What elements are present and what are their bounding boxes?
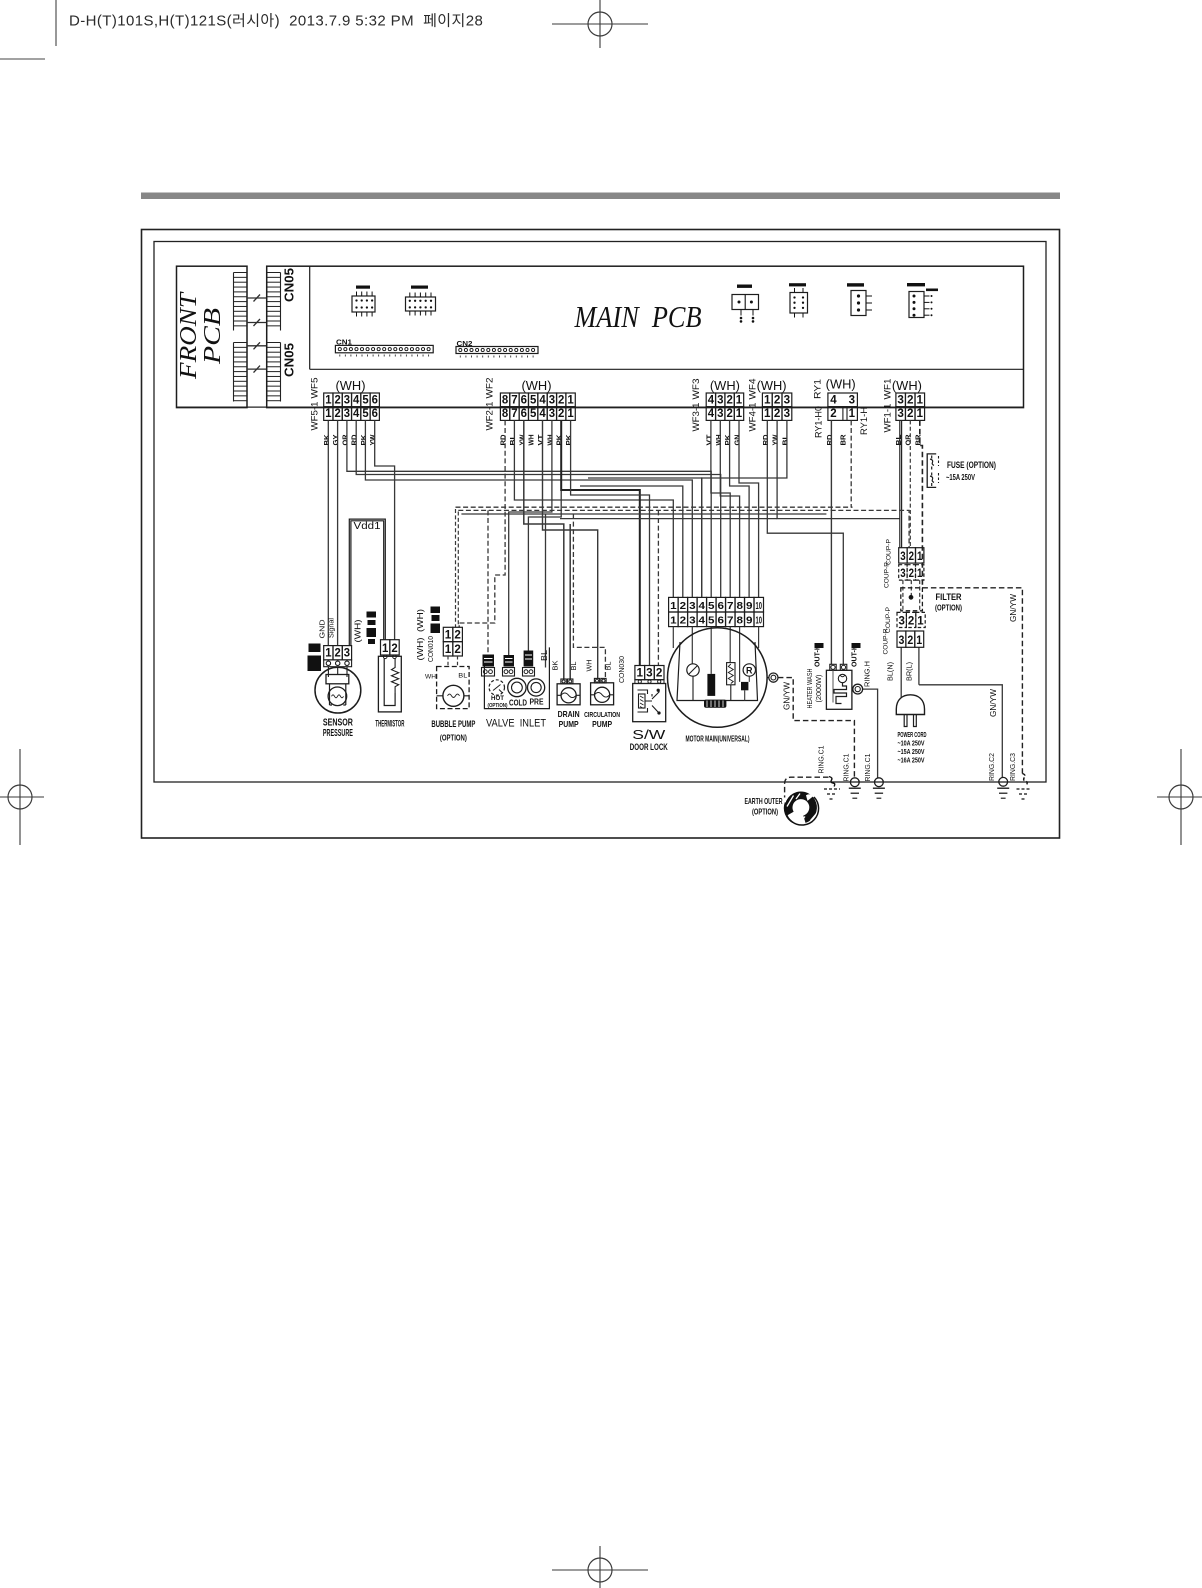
svg-text:1: 1 (670, 614, 677, 626)
svg-text:S/W: S/W (632, 728, 665, 742)
svg-text:WH: WH (529, 435, 536, 446)
svg-text:Vdd1: Vdd1 (354, 520, 381, 532)
svg-text:3: 3 (549, 395, 555, 407)
svg-text:3: 3 (717, 395, 723, 407)
hot valve coil (483, 655, 495, 667)
crop mark top-left vertical (55, 0, 57, 46)
svg-text:6: 6 (718, 614, 725, 626)
svg-text:PK: PK (566, 435, 573, 446)
wire COUP-R to plug left (900, 647, 902, 697)
svg-text:2: 2 (454, 644, 461, 656)
svg-text:EARTH OUTER: EARTH OUTER (745, 796, 783, 806)
wire(option) WF1.1 via fuse (920, 420, 923, 587)
ring terminal RING.C2 (999, 777, 1008, 786)
wire WF2.5 to circulation pump (543, 420, 598, 678)
thermistor body (378, 656, 401, 712)
svg-text:BR(L): BR(L) (905, 662, 914, 681)
relay K2 footprint (406, 297, 436, 311)
svg-text:2: 2 (558, 408, 564, 420)
bubble pump motor (443, 685, 464, 706)
svg-text:BL: BL (540, 649, 549, 661)
svg-text:WH: WH (587, 660, 594, 672)
ground (option) RING.C3 (1017, 789, 1031, 799)
svg-text:WF3: WF3 (691, 379, 702, 400)
svg-text:BK: BK (324, 435, 331, 446)
svg-text:3: 3 (897, 395, 904, 407)
svg-text:BR: BR (915, 435, 922, 446)
svg-text:DRAIN: DRAIN (558, 709, 580, 719)
wire WF2.7 to motor pin1 (514, 420, 673, 597)
wire(option) RY1.1 drop (850, 420, 852, 507)
svg-text:PRESSURE: PRESSURE (323, 728, 353, 739)
motor brush (707, 674, 715, 696)
pressure sensor wire blobs (309, 644, 321, 653)
svg-text:(2000W): (2000W) (814, 674, 823, 702)
svg-text:BL: BL (458, 673, 467, 680)
svg-text:1: 1 (849, 408, 856, 420)
svg-text:RY1: RY1 (813, 379, 824, 399)
svg-text:2: 2 (908, 615, 914, 627)
svg-text:Signal: Signal (327, 618, 336, 638)
ribbon wire with slash 4 (247, 368, 267, 370)
svg-text:9: 9 (746, 614, 753, 626)
wire bus extension (560, 518, 777, 520)
drain pump terminals (561, 679, 566, 684)
relay K5 footprint (851, 291, 866, 316)
svg-text:WF2-1: WF2-1 (485, 402, 496, 431)
svg-text:4: 4 (353, 408, 360, 420)
svg-text:FRONT: FRONT (176, 291, 202, 380)
svg-text:(WH): (WH) (522, 379, 552, 393)
svg-text:2: 2 (391, 643, 397, 655)
wire(option) bus dashed upper (456, 506, 853, 508)
section divider gray bar (141, 193, 1060, 200)
earth outer coil (784, 791, 818, 825)
wire(option) WF2.8 to bubble pump (459, 420, 505, 627)
svg-text:5: 5 (362, 395, 369, 407)
svg-text:2: 2 (334, 408, 340, 420)
svg-text:2: 2 (909, 568, 914, 580)
registration mark top center (552, 0, 648, 48)
svg-text:CN1: CN1 (336, 339, 352, 346)
wire COUP-R to plug right (918, 647, 920, 685)
svg-text:4: 4 (353, 395, 360, 407)
svg-text:10: 10 (756, 600, 763, 612)
svg-text:6: 6 (372, 395, 378, 407)
svg-text:4: 4 (708, 408, 715, 420)
svg-text:2: 2 (726, 395, 732, 407)
svg-text:9: 9 (746, 600, 753, 612)
connector WF2 (500, 393, 509, 407)
connector WF4 (762, 393, 772, 407)
wire(option) door lock pin2 (657, 510, 659, 665)
svg-text:4: 4 (539, 408, 546, 420)
svg-text:8: 8 (502, 408, 509, 420)
svg-text:RING.C1: RING.C1 (863, 754, 872, 782)
pressure sensor pin strip (324, 660, 352, 667)
svg-text:5: 5 (708, 600, 715, 612)
svg-text:RING.C1: RING.C1 (817, 746, 826, 774)
svg-text:GY: GY (333, 434, 340, 445)
svg-text:2: 2 (774, 408, 781, 420)
power cord plug (896, 695, 924, 715)
svg-text:OR: OR (906, 435, 913, 446)
svg-text:WH: WH (716, 435, 723, 446)
svg-text:(WH): (WH) (757, 379, 787, 393)
motor rotor R (743, 664, 755, 676)
svg-text:CON030: CON030 (619, 656, 626, 683)
wire drain pump BL (569, 524, 571, 679)
wire(option) earth outer link (785, 777, 829, 797)
svg-text:3: 3 (344, 395, 350, 407)
svg-text:3: 3 (784, 408, 791, 420)
svg-text:1: 1 (736, 395, 743, 407)
registration mark left middle (0, 749, 44, 845)
connector COUP-P lower (option) (897, 612, 906, 627)
svg-text:THERMISTOR: THERMISTOR (375, 719, 404, 729)
svg-text:4: 4 (699, 614, 706, 626)
connector pressure sensor 1-2-3 (324, 646, 333, 660)
svg-text:(OPTION): (OPTION) (935, 603, 962, 613)
svg-text:~15A 250V: ~15A 250V (946, 472, 975, 482)
svg-text:PRE: PRE (530, 698, 545, 707)
pressure sensor body (315, 667, 361, 713)
svg-text:RY1-H0: RY1-H0 (814, 406, 825, 438)
wire WF2.4 to cold valve (509, 420, 552, 655)
svg-text:WF5-1: WF5-1 (310, 402, 321, 431)
svg-text:VALVE INLET: VALVE INLET (486, 718, 546, 730)
svg-text:2: 2 (454, 629, 461, 641)
svg-text:1: 1 (764, 395, 771, 407)
svg-text:OR: OR (342, 435, 349, 446)
circulation pump body (591, 683, 614, 705)
filter FILTER(OPTION) box (901, 588, 923, 611)
svg-text:5: 5 (530, 408, 537, 420)
wire RY1.2 to heater left terminal (830, 420, 832, 664)
wire WF3.2 to motor pin9 (730, 420, 750, 597)
svg-text:GN/YW: GN/YW (782, 682, 792, 710)
svg-text:1: 1 (736, 408, 743, 420)
svg-text:RING.C3: RING.C3 (1008, 753, 1017, 781)
svg-text:OUT-H: OUT-H (851, 645, 858, 667)
svg-text:2: 2 (680, 614, 687, 626)
svg-text:1: 1 (917, 615, 924, 627)
svg-text:PK: PK (361, 435, 368, 446)
svg-text:BL: BL (605, 661, 612, 670)
wire WF1.3 to COUP-P (double) (899, 420, 901, 547)
svg-text:1: 1 (382, 643, 389, 655)
connector COUP-R upper (option) (899, 565, 907, 580)
diagram inner border (154, 242, 1046, 783)
ring terminal RING.C1 heater (875, 778, 884, 787)
svg-text:CON010: CON010 (428, 636, 435, 662)
svg-text:3: 3 (900, 568, 905, 580)
svg-text:CN2: CN2 (457, 341, 473, 348)
ground RING.C2 (997, 787, 1009, 789)
connector CON010 bubble pump (443, 627, 453, 641)
svg-text:4: 4 (830, 395, 837, 407)
node Vdd1 loop wire (349, 519, 385, 646)
svg-text:RD: RD (501, 435, 508, 446)
svg-text:SENSOR: SENSOR (323, 718, 354, 729)
svg-text:6: 6 (521, 395, 527, 407)
registration mark bottom center (552, 1546, 648, 1588)
svg-text:PK: PK (725, 435, 732, 446)
svg-text:7: 7 (511, 408, 517, 420)
svg-text:WF4-1: WF4-1 (748, 403, 759, 432)
svg-text:~16A 250V: ~16A 250V (898, 756, 925, 765)
svg-text:(WH): (WH) (826, 378, 856, 392)
motor ground ring GN/YW (769, 673, 778, 682)
svg-text:4: 4 (699, 600, 706, 612)
svg-text:(WH): (WH) (353, 619, 363, 642)
registration mark right middle (1157, 749, 1202, 845)
wire WF5.6 to thermistor pin2 (375, 420, 395, 639)
svg-text:4: 4 (708, 395, 715, 407)
relay K6 footprint (909, 292, 924, 318)
wire(option) filter GN/YW (922, 588, 1022, 774)
wire WF5.2 to pressure sensor pin2 (337, 420, 339, 645)
wire heater RING.H lead (863, 689, 878, 778)
svg-text:2: 2 (656, 668, 663, 680)
svg-text:3: 3 (849, 395, 855, 407)
svg-text:RING.C1: RING.C1 (842, 754, 851, 782)
svg-text:2: 2 (907, 635, 913, 647)
valve inlet frame (484, 647, 549, 708)
MAIN PCB inner partition horizontal (310, 368, 1024, 370)
wire WF5.4 to motor pin6 (356, 420, 721, 597)
svg-text:(WH): (WH) (892, 379, 922, 393)
ground heater ring (873, 787, 885, 789)
FRONT PCB box (177, 266, 248, 407)
svg-text:(WH): (WH) (415, 609, 425, 632)
svg-text:WF2: WF2 (485, 378, 496, 399)
svg-text:RY1-H: RY1-H (859, 407, 870, 435)
svg-text:1: 1 (325, 408, 332, 420)
wire WF4.2 long bus to WF1 (777, 420, 900, 518)
svg-text:RD: RD (827, 435, 834, 446)
svg-text:RING.C2: RING.C2 (987, 753, 996, 781)
ribbon wire with slash 2 (247, 322, 267, 324)
svg-text:FUSE (OPTION): FUSE (OPTION) (947, 460, 996, 471)
svg-text:GN: GN (734, 435, 741, 446)
svg-text:3: 3 (689, 600, 696, 612)
ground motor ring (849, 787, 861, 789)
pre valve coil (524, 651, 534, 667)
wire WF2.3 to pre valve (528, 420, 561, 650)
relay K4 footprint (790, 293, 808, 314)
svg-text:GN/YW: GN/YW (1008, 594, 1018, 622)
svg-text:10: 10 (756, 614, 763, 626)
wire(option) bus dashed lower (458, 510, 909, 547)
svg-text:2: 2 (830, 408, 836, 420)
svg-text:GND: GND (317, 619, 326, 639)
heater terminals (830, 664, 836, 670)
svg-text:CIRCULATION: CIRCULATION (584, 710, 620, 719)
svg-text:8: 8 (502, 395, 509, 407)
svg-text:3: 3 (549, 408, 555, 420)
svg-text:3: 3 (646, 668, 653, 680)
svg-text:YW: YW (370, 434, 377, 445)
svg-text:1: 1 (917, 568, 923, 580)
fuse FUSE(OPTION) (927, 454, 936, 488)
hot valve (option) (489, 680, 504, 695)
wire WF2.1 to door lock pin3 (571, 420, 650, 665)
svg-text:3: 3 (899, 615, 905, 627)
svg-text:2: 2 (335, 648, 341, 660)
wire(option) hot valve drop (487, 510, 489, 654)
connector WF3 (706, 393, 715, 407)
svg-text:WF1-1: WF1-1 (883, 404, 894, 433)
MAIN PCB box (267, 266, 1024, 407)
wire WF3.1 to motor pin10 (739, 420, 759, 597)
svg-text:RD: RD (352, 435, 359, 446)
svg-text:3: 3 (689, 614, 696, 626)
svg-text:1: 1 (917, 551, 923, 563)
svg-text:1: 1 (325, 648, 332, 660)
svg-text:5: 5 (708, 614, 715, 626)
svg-text:1: 1 (670, 600, 677, 612)
svg-text:2: 2 (680, 600, 687, 612)
MAIN PCB connector ladder lower-right (266, 343, 268, 402)
svg-text:BUBBLE PUMP: BUBBLE PUMP (431, 719, 475, 730)
svg-text:3: 3 (899, 635, 905, 647)
svg-text:1: 1 (445, 629, 452, 641)
svg-text:(OPTION): (OPTION) (752, 808, 778, 817)
wire(option) WF1.2 to COUP-P (909, 420, 911, 547)
svg-text:GN/YW: GN/YW (988, 689, 998, 717)
cold valve (508, 678, 526, 696)
svg-text:YW: YW (773, 434, 780, 445)
svg-text:YW: YW (519, 434, 526, 445)
connector thermistor 1-2 (381, 640, 390, 655)
wire valve common BL (545, 514, 547, 668)
svg-text:5: 5 (362, 408, 369, 420)
svg-text:6: 6 (372, 408, 378, 420)
svg-text:DOOR LOCK: DOOR LOCK (630, 742, 668, 752)
svg-text:BL(N): BL(N) (886, 662, 895, 681)
header CN1 (335, 345, 433, 352)
svg-text:1: 1 (916, 635, 922, 647)
ribbon wire with slash 3 (247, 345, 267, 347)
svg-text:BL: BL (782, 434, 789, 446)
connector RY1 (828, 393, 858, 407)
wire WF5.5 to motor pin3 (365, 420, 692, 597)
crop mark left horizontal (0, 58, 45, 60)
svg-text:3: 3 (900, 551, 905, 563)
wire(option) circulation BL (573, 514, 605, 678)
door lock S/W body (633, 684, 666, 722)
svg-text:PUMP: PUMP (592, 719, 612, 729)
svg-text:VT: VT (538, 434, 545, 446)
PCB bottom rail wire (177, 406, 1024, 408)
cold valve coil (504, 655, 515, 667)
svg-text:COUP-P: COUP-P (886, 539, 893, 565)
wire WF3.3 to motor pin8 (720, 420, 739, 597)
connector motor 10pin (669, 597, 678, 612)
svg-text:8: 8 (737, 600, 744, 612)
svg-text:6: 6 (718, 600, 725, 612)
svg-text:HEATER WASH: HEATER WASH (805, 669, 814, 709)
svg-text:PCB: PCB (200, 308, 226, 366)
svg-text:(WH): (WH) (336, 379, 366, 393)
motor tacho (687, 664, 699, 676)
drain pump body (557, 684, 580, 705)
svg-text:D-H(T)101S,H(T)121S(러시아) 2013: D-H(T)101S,H(T)121S(러시아) 2013.7.9 5:32 P… (69, 13, 483, 30)
svg-text:PUMP: PUMP (559, 719, 579, 729)
svg-text:FILTER: FILTER (936, 592, 962, 603)
svg-text:(WH): (WH) (415, 637, 425, 660)
MAIN PCB inner partition vertical (309, 266, 311, 369)
svg-text:7: 7 (727, 600, 734, 612)
wire WF3.4 to motor pin7 (711, 420, 730, 597)
thermistor pins (383, 655, 387, 659)
bubble pump option box (437, 667, 470, 709)
svg-text:1: 1 (325, 395, 332, 407)
svg-text:WH: WH (425, 674, 436, 681)
wire motor pin4 branch (588, 478, 702, 597)
connector WF1 (896, 393, 906, 407)
svg-text:7: 7 (511, 395, 517, 407)
svg-text:WF4: WF4 (748, 379, 759, 400)
svg-text:RD: RD (763, 435, 770, 446)
wire motor pin2 branch (580, 486, 683, 597)
connector WF5 (324, 393, 333, 407)
svg-text:COUP-R: COUP-R (883, 628, 890, 654)
svg-text:1: 1 (445, 644, 452, 656)
svg-text:RING.H: RING.H (863, 661, 872, 687)
svg-text:(OPTION): (OPTION) (440, 733, 467, 743)
svg-text:(OPTION): (OPTION) (488, 703, 508, 709)
heater HEATER WASH(2000W) (826, 670, 852, 709)
door lock pin strip (635, 680, 664, 684)
svg-text:3: 3 (344, 648, 350, 660)
svg-text:VT: VT (706, 434, 713, 446)
svg-text:R: R (746, 665, 753, 675)
ring terminal hook RING.C3 (1022, 774, 1027, 786)
motor MAIN(UNIVERSAL) (668, 628, 768, 728)
svg-text:2: 2 (334, 395, 340, 407)
svg-text:BR: BR (841, 435, 848, 446)
wire WF5.1 to pressure sensor pin1 (327, 420, 329, 645)
svg-text:HOT: HOT (491, 696, 504, 702)
svg-text:CN05: CN05 (283, 343, 297, 377)
svg-text:(WH): (WH) (710, 379, 740, 393)
svg-text:MOTOR MAIN(UNIVERSAL): MOTOR MAIN(UNIVERSAL) (686, 735, 750, 744)
pre valve (528, 679, 545, 696)
svg-text:WF3-1: WF3-1 (691, 403, 702, 432)
motor field coil main (704, 700, 726, 708)
svg-text:2: 2 (774, 395, 781, 407)
svg-text:4: 4 (539, 395, 546, 407)
motor resistor (727, 663, 735, 685)
wire WF4.3 to motor pin4 (702, 420, 787, 597)
ring terminal RING.C1 motor (850, 778, 859, 787)
ring terminal RING.H (853, 684, 863, 694)
svg-text:1: 1 (917, 395, 924, 407)
ribbon wire with slash 1 (247, 297, 267, 299)
svg-text:MAIN PCB: MAIN PCB (574, 299, 702, 334)
svg-text:WF5: WF5 (310, 378, 321, 399)
FRONT PCB connector ladder lower-left (233, 343, 235, 402)
wire power cord GN/YW to RING.C2 (919, 685, 1002, 778)
connector COUP-R lower (897, 631, 906, 647)
svg-text:COLD: COLD (509, 699, 527, 708)
svg-text:2: 2 (558, 395, 564, 407)
FRONT PCB label (176, 291, 226, 380)
MAIN PCB connector ladder upper-right (266, 273, 268, 331)
svg-text:8: 8 (737, 614, 744, 626)
